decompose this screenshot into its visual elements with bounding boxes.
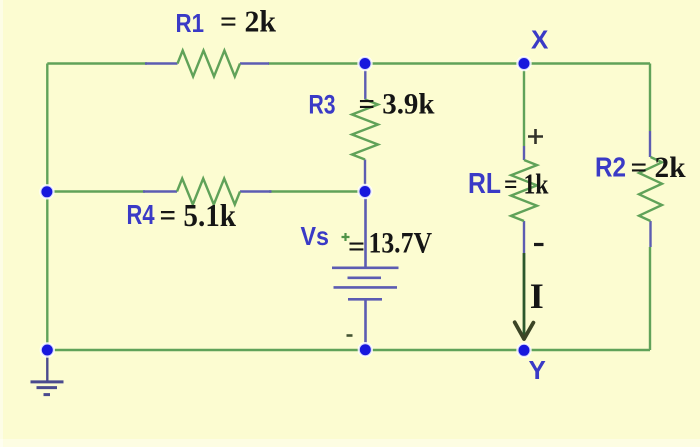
resistor R3 leads [364,64,367,192]
svg-text:= 3.9k: = 3.9k [359,88,435,121]
resistor R4 [177,179,240,205]
resistor R2 [639,157,662,221]
svg-text:= 1k: = 1k [504,170,549,201]
svg-text:= 2k: = 2k [631,151,686,184]
battery Vs lead bottom [364,299,367,350]
battery minus mark [347,334,353,337]
svg-text:R2: R2 [595,152,626,183]
polarity plus of RL [528,129,543,144]
wire: middle horizontal right segment [269,190,365,192]
resistor RL leads [523,146,525,253]
resistor RL [511,160,537,221]
resistor R1 leads [145,62,269,64]
battery Vs lead top [364,192,367,268]
svg-text:13.7V: 13.7V [369,227,433,260]
node ground [41,343,54,356]
svg-text:= 5.1k: = 5.1k [160,197,237,233]
battery Vs plates [332,266,399,269]
current arrow I [523,253,526,335]
wire: top horizontal left segment [47,62,147,64]
resistor R4 leads [143,190,272,192]
node X [517,57,530,70]
svg-text:Y: Y [529,355,546,385]
svg-text:R1: R1 [176,8,205,38]
wire: RL branch upper (X down to RL) [523,64,525,147]
node Y [517,344,530,357]
wire: bottom horizontal [47,349,650,351]
svg-text:Vs: Vs [301,221,330,251]
ground [46,350,48,382]
node top (R3/top wire) [358,57,371,70]
wire: middle horizontal left segment [47,190,145,192]
battery plus mark [342,233,350,241]
svg-text:R4: R4 [127,199,155,230]
resistor R2 leads [649,131,652,247]
resistor R3 [352,100,378,160]
node battery bottom [359,343,372,356]
svg-text:=: = [348,230,365,263]
node left middle [40,185,53,198]
svg-text:X: X [531,25,549,55]
svg-text:R3: R3 [309,90,336,120]
svg-text:= 2k: = 2k [220,4,277,39]
wire: right vertical bottom segment [649,247,651,350]
wire: top horizontal right segment [268,62,650,64]
polarity minus of RL [534,243,544,246]
svg-text:I: I [530,276,544,316]
svg-text:RL: RL [468,168,501,200]
node R3 bottom [358,185,371,198]
resistor R1 [178,51,241,77]
wire: right vertical top segment [649,64,651,132]
wire: left vertical [46,64,48,351]
